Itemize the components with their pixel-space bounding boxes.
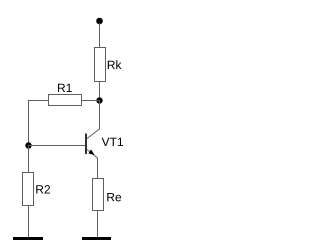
resistor Re: [93, 179, 104, 211]
label VT1: [102, 138, 123, 146]
node: supply terminal dot: [96, 18, 103, 25]
transistor VT1 emitter lead: [87, 150, 98, 179]
transistor VT1 emitter arrow: [88, 149, 94, 155]
node: collector junction dot: [96, 97, 102, 103]
ground (left): [13, 237, 43, 240]
resistor Rk: [95, 48, 106, 82]
wire: base junction down to R2: [28, 146, 30, 173]
label R2: [36, 185, 50, 193]
resistor R2: [23, 173, 34, 206]
label R1: [58, 84, 72, 92]
label Re: [107, 193, 121, 201]
wire: terminal to Rk top: [99, 23, 101, 48]
wire: base junction to transistor base: [29, 145, 86, 147]
wire: junction to R1 right: [82, 100, 100, 102]
transistor VT1 base bar: [85, 134, 87, 155]
transistor VT1 collector lead: [87, 101, 100, 139]
label Rk: [108, 60, 122, 69]
wire: R2 bottom to ground: [28, 206, 30, 238]
wire: Re bottom to ground: [97, 211, 99, 238]
wire: Rk bottom to collector junction: [99, 82, 101, 101]
resistor R1: [49, 95, 82, 106]
wire: R1 left to left rail corner: [29, 100, 49, 102]
ground (right): [82, 237, 111, 240]
wire: left rail down to base junction: [28, 100, 30, 146]
node: base junction dot: [25, 142, 31, 148]
